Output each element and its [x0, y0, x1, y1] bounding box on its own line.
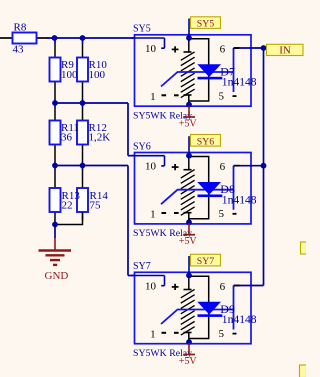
- svg-text:IN: IN: [279, 44, 291, 56]
- svg-text:10: 10: [145, 281, 157, 293]
- svg-text:5: 5: [218, 208, 224, 220]
- svg-text:R8: R8: [14, 22, 27, 34]
- svg-text:1: 1: [150, 328, 156, 340]
- svg-text:75: 75: [90, 200, 102, 212]
- svg-text:SY5: SY5: [133, 24, 151, 35]
- svg-text:SY6: SY6: [197, 136, 215, 147]
- svg-text:5: 5: [218, 91, 224, 103]
- svg-text:SY5: SY5: [197, 19, 215, 30]
- svg-text:1n4148: 1n4148: [222, 76, 257, 89]
- svg-text:+5V: +5V: [179, 356, 198, 367]
- svg-text:10: 10: [145, 43, 157, 55]
- svg-text:36: 36: [61, 132, 73, 144]
- svg-text:100: 100: [61, 69, 78, 81]
- svg-text:1,2K: 1,2K: [89, 132, 111, 144]
- svg-text:6: 6: [220, 44, 226, 56]
- svg-text:SY7: SY7: [133, 261, 151, 272]
- svg-text:1: 1: [150, 209, 156, 221]
- svg-text:1n4148: 1n4148: [222, 193, 257, 206]
- svg-text:SY6: SY6: [133, 141, 151, 152]
- svg-text:10: 10: [145, 161, 157, 173]
- svg-text:5: 5: [218, 328, 224, 340]
- svg-text:1n4148: 1n4148: [222, 313, 257, 326]
- svg-text:1: 1: [150, 91, 156, 103]
- svg-text:43: 43: [13, 44, 25, 56]
- svg-text:+5V: +5V: [179, 118, 198, 129]
- svg-text:GND: GND: [45, 270, 69, 282]
- svg-text:6: 6: [220, 161, 226, 173]
- svg-text:SY7: SY7: [197, 256, 215, 267]
- svg-text:6: 6: [220, 281, 226, 293]
- svg-text:22: 22: [62, 200, 73, 212]
- svg-text:+5V: +5V: [179, 236, 198, 247]
- svg-text:100: 100: [89, 69, 106, 81]
